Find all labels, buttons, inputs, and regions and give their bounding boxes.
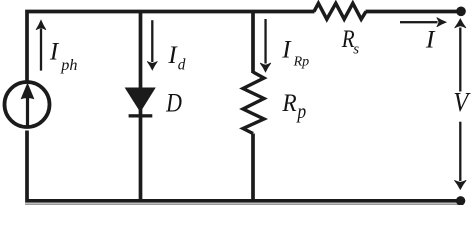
arrow V upper (points up) [455,19,466,92]
svg-text:R: R [281,88,297,117]
resistor R_p [243,72,264,134]
shadow line under bottom rail [25,203,461,205]
node output bottom (dot) [456,196,465,205]
node output top (dot) [456,6,466,16]
wire diode branch [139,13,143,200]
wire left rail lower part and bottom rail [27,131,461,201]
current source arrow [21,83,35,127]
svg-text:I: I [425,25,436,54]
current source circle [5,82,50,127]
svg-text:s: s [353,42,359,58]
svg-text:Rp: Rp [293,55,310,70]
svg-text:V: V [453,87,471,117]
diode D triangle [126,88,154,111]
svg-text:I: I [167,42,178,69]
arrow I_d [147,20,157,70]
arrow V lower (points down) [454,122,466,190]
svg-text:D: D [165,88,182,118]
arrow I_ph [36,20,46,70]
arrow I_Rp [260,19,271,72]
svg-text:I: I [49,39,60,66]
svg-text:I: I [281,37,292,64]
wire left rail top and top rail to Rs [27,12,315,81]
wire Rp branch upper [251,13,255,73]
svg-text:d: d [178,57,186,74]
resistor R_s [314,3,366,19]
svg-text:p: p [296,101,307,123]
wire Rp branch lower [251,134,255,200]
arrow I output [400,18,446,27]
svg-text:ph: ph [60,56,77,74]
wire top rail from Rs to output node [366,10,460,14]
diode D cathode bar [129,114,153,117]
